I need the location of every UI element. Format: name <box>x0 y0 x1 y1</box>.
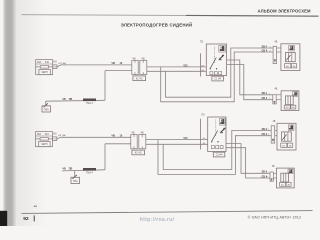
svg-text:4Б: 4Б <box>275 89 278 91</box>
switch terminal row S2 <box>211 146 223 149</box>
heater connector bracket E1a <box>273 46 281 63</box>
connector label box K1 Ch2 row1 <box>133 76 146 81</box>
switch module box S2 <box>208 117 226 152</box>
backrest heater box E1a <box>281 44 300 71</box>
connector K1 left cell row1 <box>132 60 138 74</box>
svg-text:К1 Ч2: К1 Ч2 <box>136 76 143 80</box>
header rule <box>22 15 319 16</box>
svg-text:ЗБ 4: ЗБ 4 <box>262 45 268 48</box>
svg-text:http://rna.ru/: http://rna.ru/ <box>140 217 175 223</box>
heater connector bracket E2b <box>270 172 276 181</box>
svg-text:ЧБ: ЧБ <box>112 62 116 65</box>
svg-text:92: 92 <box>23 216 29 222</box>
backrest heater icon E2a <box>288 125 294 130</box>
svg-text:хПГ-ДА: хПГ-ДА <box>58 62 66 65</box>
svg-text:ЧБ: ЧБ <box>142 59 146 61</box>
svg-text:ЧБ: ЧБ <box>141 133 145 135</box>
seat heat indicator icon S2 <box>220 119 226 126</box>
heater connector bracket E2a <box>271 126 277 143</box>
ground symbol GMA1 <box>42 103 51 112</box>
switch dashed link S1 <box>213 47 215 64</box>
switch label box S2 <box>213 152 225 157</box>
svg-text:F10: F10 <box>45 133 50 136</box>
svg-text:ЧБ: ЧБ <box>132 133 136 135</box>
ground wire row2 <box>62 170 105 171</box>
switch arrow glyph S1 <box>219 55 225 60</box>
pin box S31 <box>53 65 57 69</box>
ground stub to connector row2 <box>105 143 131 145</box>
wire feed fuse to connector row2 <box>57 137 131 139</box>
wire connector to switch pin1 row2 <box>146 139 208 141</box>
ground return riser V0 row2 <box>104 144 106 170</box>
splice GMA-4 row1 <box>83 99 96 102</box>
cushion heater box E2b <box>276 168 294 188</box>
loop wire outer row1 <box>161 52 273 102</box>
svg-text:ЧБ: ЧБ <box>62 167 66 170</box>
cushion heater label boxes E1b <box>284 105 296 109</box>
switch arrow glyph S2 <box>220 128 226 133</box>
svg-text:ЗБ 4: ЗБ 4 <box>262 92 268 95</box>
footer tick <box>33 215 35 221</box>
black scan corner bottom-left <box>0 211 7 226</box>
wire connector to switch pin2 row2 <box>146 143 208 145</box>
svg-text:ЧБ: ЧБ <box>62 98 66 101</box>
svg-text:ЧЕРН: ЧЕРН <box>41 144 48 146</box>
svg-text:К1 Ч2: К1 Ч2 <box>135 151 142 155</box>
svg-text:ГМА: ГМА <box>73 180 78 183</box>
switch contact dots S1 <box>210 68 218 69</box>
wire feed fuse to connector row1 <box>57 65 132 67</box>
svg-text:БС: БС <box>281 185 284 187</box>
svg-text:ПБ: ПБ <box>69 98 73 101</box>
svg-text:15А: 15А <box>37 61 42 64</box>
svg-text:ЧЕРН: ЧЕРН <box>41 72 48 74</box>
connector K1 right cell row2 <box>139 135 146 149</box>
svg-text:БС: БС <box>286 66 289 68</box>
svg-text:ам: ам <box>34 204 38 208</box>
svg-text:НО: НО <box>53 62 57 64</box>
svg-text:15А: 15А <box>37 133 42 136</box>
loop wire inner row1 <box>166 48 273 97</box>
connector K1 left cell row2 <box>131 135 137 149</box>
fuse box F12 <box>36 132 53 147</box>
backrest heater label boxes E2a <box>281 143 293 147</box>
svg-text:СБ 4: СБ 4 <box>262 49 268 52</box>
svg-text:ЧБ: ЧБ <box>133 59 137 61</box>
backrest heater element E2a <box>282 132 292 141</box>
svg-text:ГМА 4: ГМА 4 <box>86 102 93 105</box>
connector label box K1 Ch2 row2 <box>132 150 145 155</box>
svg-text:ЧГ2: ЧГ2 <box>183 64 188 67</box>
cushion heater box E1b <box>281 91 299 111</box>
ground riser row2 <box>74 171 76 178</box>
pin box S32 <box>53 137 57 141</box>
svg-text:ЧБ: ЧБ <box>112 135 116 138</box>
svg-text:С1 Н4: С1 Н4 <box>216 154 223 157</box>
connector K1 right cell row1 <box>140 60 147 74</box>
splice GMA-4 row2 <box>83 168 96 171</box>
svg-text:ГМА 4: ГМА 4 <box>86 172 93 175</box>
svg-text:АЛЬБОМ ЭЛЕКТРОСХЕМ: АЛЬБОМ ЭЛЕКТРОСХЕМ <box>257 8 311 13</box>
ground riser row1 <box>45 101 47 106</box>
svg-text:БС: БС <box>282 145 285 147</box>
wire switch to cushion heater B row1 <box>227 65 273 100</box>
svg-text:4Б: 4Б <box>275 42 278 44</box>
svg-text:СБ 4: СБ 4 <box>262 97 268 100</box>
wire switch to cushion heater A row2 <box>226 144 270 174</box>
switch module pin bracket row1 <box>200 53 202 76</box>
wire connector to switch pin1 row1 <box>147 66 207 68</box>
heater connector bracket E1b <box>273 95 281 104</box>
switch dashed link S2 <box>215 120 217 137</box>
backrest heater element E1a <box>285 52 295 61</box>
loop wire inner row2 <box>163 131 271 170</box>
cushion heater icon E2b <box>288 169 293 174</box>
svg-text:ЧГ2: ЧГ2 <box>183 137 188 140</box>
svg-text:НО: НО <box>53 134 57 136</box>
switch label box S1 <box>212 76 224 81</box>
svg-text:ПБ: ПБ <box>69 167 73 170</box>
backrest heater label boxes E1a <box>285 64 297 68</box>
svg-text:ГМА: ГМА <box>44 108 49 111</box>
ground return riser V0 row1 <box>104 71 106 101</box>
fuse box F11 <box>36 60 53 75</box>
switch contact dots S2 <box>211 141 219 142</box>
switch contact lever S1 <box>210 58 216 69</box>
backrest heater icon E1a <box>289 45 295 51</box>
svg-text:С1 Н4: С1 Н4 <box>214 78 221 81</box>
cushion heater icon E1b <box>293 92 298 97</box>
loop wire outer row2 <box>158 136 271 175</box>
backrest heater box E2a <box>277 123 296 150</box>
svg-text:ЭЛЕКТРОПОДОГРЕВ СИДЕНИЙ: ЭЛЕКТРОПОДОГРЕВ СИДЕНИЙ <box>121 23 193 28</box>
ground stub to connector row1 <box>105 70 132 72</box>
svg-text:4Б: 4Б <box>273 121 276 123</box>
ground wire row1 <box>46 99 105 102</box>
switch module pin bracket row2 <box>200 119 202 150</box>
switch module box S1 <box>206 44 226 76</box>
ground symbol GMA2 <box>71 175 80 184</box>
seat heat indicator icon S1 <box>219 46 226 53</box>
svg-text:БС: БС <box>286 107 289 109</box>
switch contact lever S2 <box>212 131 218 142</box>
wire switch to cushion heater A row1 <box>227 60 273 95</box>
svg-text:ПЗ: ПЗ <box>201 114 205 117</box>
cushion heater element E1b <box>286 96 294 105</box>
switch terminal row S1 <box>210 72 222 75</box>
cushion heater label boxes E2b <box>280 183 292 187</box>
svg-text:4Б: 4Б <box>272 166 275 168</box>
wire switch to cushion heater B row2 <box>226 148 270 178</box>
cushion heater element E2b <box>281 173 289 182</box>
svg-text:хПГ-ДА: хПГ-ДА <box>58 134 66 137</box>
svg-text:F10: F10 <box>45 61 50 64</box>
wire connector to switch pin2 row1 <box>147 70 207 72</box>
footer rule <box>22 211 313 214</box>
svg-text:© ОАО НПП-ИТЦ.АВТО« 2012: © ОАО НПП-ИТЦ.АВТО« 2012 <box>248 216 301 220</box>
